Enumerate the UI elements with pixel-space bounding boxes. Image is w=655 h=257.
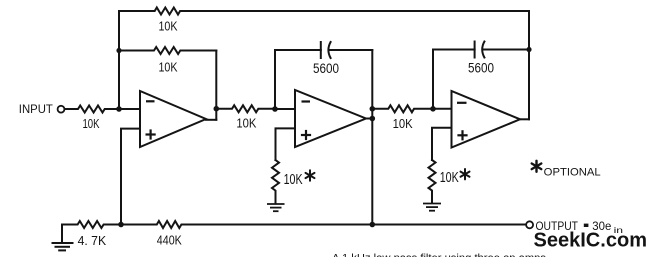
node F: op2 output node at tip [370,116,376,122]
wire op3 output jog [520,118,529,120]
wire right vertical (top rail down to op-amp U3 output) [528,11,530,119]
svg-text:SeekIC.com: SeekIC.com [534,228,648,251]
svg-text:10K: 10K [159,20,179,34]
wire op1 output jog [206,119,216,121]
wire ground stem left [61,225,63,243]
svg-text:5600: 5600 [313,61,339,76]
node G: op3 minus input node [430,106,436,112]
node J: bottom rail stage2 junction [370,222,376,228]
resistor R2 10K feedback stage1 row [119,47,216,54]
resistor R4 10K series stage3 [372,105,433,112]
ground symbol stage2 [267,204,285,211]
node E: op2 output node upper [370,106,376,112]
svg-text:INPUT: INPUT [19,102,54,116]
wire stage2 right vertical (output to bottom rail) [371,50,373,225]
wire op1 minus input [119,108,140,110]
wire top rail with resistor [119,8,529,15]
wire op2 plus input [276,128,296,160]
op-amp U2 plus symbol [301,134,311,136]
node I: bottom rail left junction [118,222,124,228]
wire stage3 cap left vertical [432,50,434,110]
wire bottom rail with 4.7K and 440K resistors [62,221,526,228]
op-amp U2 [295,90,366,147]
op-amp U2 minus symbol [302,100,311,102]
svg-text:A 1 kHz low pass filter using: A 1 kHz low pass filter using three op a… [332,253,547,257]
wire op3 plus input [432,128,452,160]
wire op3 minus input [433,108,452,110]
op-amp U3 [452,91,521,148]
op-amp U3 minus symbol [457,102,467,104]
asterisk OPTIONAL note [532,161,542,172]
svg-text:10K: 10K [159,61,179,75]
svg-text:10K: 10K [83,117,100,131]
resistor R1 10K input [65,106,120,113]
svg-text:440K: 440K [157,234,183,248]
wire op2 minus input [275,108,295,110]
op-amp U1 [140,91,206,147]
resistor R7 10K optional stage2 [272,160,279,204]
wire op2 output jog [366,118,372,120]
svg-text:10K: 10K [236,117,257,131]
ground symbol stage3 [423,204,441,211]
op-amp U1 plus symbol [146,133,156,135]
asterisk optional stage2 [306,170,315,180]
equals square [584,224,589,227]
input terminal [58,106,65,113]
svg-text:10K: 10K [284,172,303,188]
resistor R8 10K optional stage3 [429,160,436,203]
wire stage1 feedback right vertical [215,51,217,120]
output terminal [526,221,533,228]
svg-text:4. 7K: 4. 7K [78,234,107,248]
ground symbol left [52,243,74,250]
wire stage2 cap left vertical [274,50,276,109]
node H: cap3 top rail junction [526,47,531,52]
node B: op1 minus input node [116,106,122,112]
svg-text:OPTIONAL: OPTIONAL [544,167,601,179]
node D: op2 minus input node [272,106,278,112]
node C: op1 output node [214,106,220,112]
wire left vertical (minus node to top rail) [118,11,120,109]
wire op1 plus input down to bottom rail [121,129,140,225]
capacitor C2 5600 stage3 box [433,49,475,51]
asterisk optional stage3 [461,169,470,179]
op-amp U3 plus symbol [457,134,467,136]
svg-text:10K: 10K [393,117,414,131]
node A: top feedback junction [116,48,121,53]
op-amp U1 minus symbol [146,100,155,102]
resistor R3 10K series stage2 [216,105,275,112]
svg-text:10K: 10K [440,170,459,186]
svg-text:5600: 5600 [468,61,494,76]
capacitor C1 5600 stage2 box [275,49,321,51]
